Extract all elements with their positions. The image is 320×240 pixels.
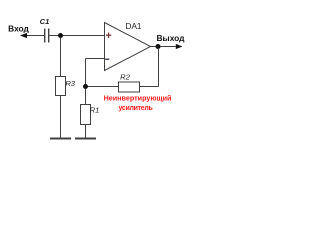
svg-text:R3: R3	[65, 79, 75, 88]
svg-text:Вход: Вход	[8, 24, 29, 34]
svg-text:R1: R1	[90, 106, 100, 115]
svg-text:усилитель: усилитель	[118, 105, 153, 112]
svg-text:DA1: DA1	[126, 22, 142, 31]
svg-text:Выход: Выход	[157, 33, 186, 43]
svg-text:C1: C1	[40, 17, 50, 26]
svg-text:Неинвертирующий: Неинвертирующий	[104, 93, 172, 102]
svg-text:R2: R2	[120, 73, 130, 82]
